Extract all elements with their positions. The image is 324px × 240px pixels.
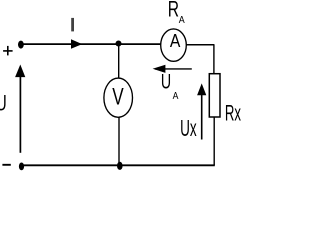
label U (clipped at left edge) bbox=[0, 92, 7, 116]
voltage arrow UA bbox=[155, 68, 192, 70]
svg-text:V: V bbox=[112, 84, 123, 111]
node A (top left) bbox=[18, 41, 24, 49]
svg-text:R: R bbox=[168, 0, 179, 22]
wire voltmeter branch upper bbox=[118, 44, 120, 79]
wire top (node + to ammeter) bbox=[20, 43, 161, 45]
label RA bbox=[168, 0, 179, 22]
wire ammeter to right corner bbox=[186, 44, 214, 46]
node B (top middle, voltmeter tap) bbox=[116, 41, 122, 47]
svg-text:A: A bbox=[173, 90, 179, 102]
svg-text:U: U bbox=[0, 92, 7, 116]
+ terminal bbox=[3, 46, 13, 56]
label Ux bbox=[180, 115, 197, 141]
resistor Rx bbox=[209, 74, 220, 117]
node D (bottom middle, voltmeter return) bbox=[117, 162, 123, 170]
svg-text:Ux: Ux bbox=[180, 115, 197, 141]
label UA bbox=[161, 70, 171, 94]
ammeter U1 bbox=[161, 29, 187, 61]
wire voltmeter branch lower bbox=[118, 117, 120, 165]
current arrow I bbox=[71, 39, 82, 48]
svg-text:Rx: Rx bbox=[225, 101, 241, 125]
voltage arrow Ux bbox=[201, 92, 203, 140]
source voltage arrow U bbox=[19, 74, 21, 153]
label Rx bbox=[225, 101, 241, 125]
node C (bottom left) bbox=[19, 163, 24, 171]
wire right vertical upper bbox=[213, 45, 215, 74]
label I bbox=[71, 18, 74, 32]
svg-text:A: A bbox=[179, 14, 185, 26]
wire right vertical lower bbox=[213, 117, 215, 165]
wire bottom bbox=[21, 164, 215, 166]
- terminal bbox=[2, 164, 10, 166]
svg-text:A: A bbox=[170, 30, 181, 52]
svg-text:U: U bbox=[161, 70, 171, 94]
voltmeter V bbox=[104, 78, 133, 117]
